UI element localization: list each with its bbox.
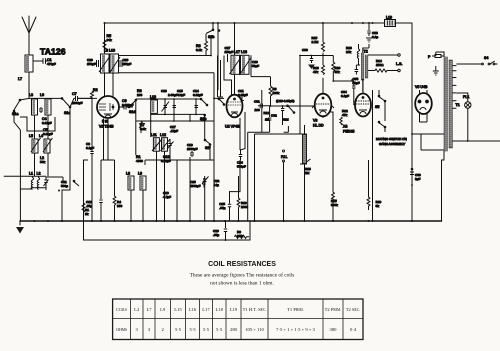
wire: X4 grid: [354, 98, 355, 105]
svg-text:S4: S4: [484, 56, 488, 60]
svg-text:0.1µF: 0.1µF: [86, 146, 94, 150]
svg-text:S5: S5: [375, 105, 379, 109]
coil L12: [162, 138, 168, 152]
svg-text:U2 VP4B: U2 VP4B: [225, 125, 240, 129]
capacitor C1: [33, 59, 48, 64]
ground: mains earth: [433, 71, 439, 75]
switch S2c: [219, 99, 224, 104]
wire: lower bus left riser: [83, 160, 85, 240]
wire: IFT2 to diode load: [251, 55, 271, 86]
svg-text:14pF: 14pF: [178, 93, 185, 97]
wire: AVC rail: [248, 132, 270, 221]
svg-text:V1 TH4B: V1 TH4B: [99, 125, 114, 129]
svg-text:150Ω: 150Ω: [376, 63, 384, 67]
svg-text:2: 2: [162, 327, 165, 332]
junction dots trimmer rails: [150, 98, 197, 122]
wire: aerial coil top rail: [20, 98, 62, 100]
IF transformer L8: [101, 54, 110, 73]
wire: V3 left drop: [255, 134, 301, 221]
svg-text:1M: 1M: [305, 171, 310, 175]
switch S2a: [73, 180, 75, 182]
wire: T2 bottom drop: [362, 80, 364, 92]
wire: antenna down-lead: [28, 72, 30, 98]
svg-text:280: 280: [230, 327, 238, 332]
junction dots on signal lines: [91, 55, 469, 186]
IF transformer L10: [110, 54, 119, 73]
wire: grid feed into V1: [78, 98, 93, 100]
ground: C30 return: [308, 65, 315, 70]
wire: bottom chassis bus: [20, 220, 442, 222]
svg-text:S1c: S1c: [64, 111, 70, 115]
svg-text:L17: L17: [202, 307, 210, 312]
valve V1 (TH4B): [97, 96, 119, 118]
svg-text:1000: 1000: [241, 205, 248, 209]
svg-text:L11: L11: [151, 133, 157, 137]
coil L13: [151, 100, 158, 113]
svg-text:500µ: 500µ: [61, 184, 68, 188]
wire: R3 junction on det line: [206, 36, 211, 56]
svg-text:P: P: [428, 55, 431, 59]
signal line V1 to mixer section: [129, 99, 201, 107]
wire: aerial section verticals: [4, 115, 48, 221]
svg-text:3.3k: 3.3k: [196, 48, 202, 52]
switch S2b: [206, 23, 213, 34]
svg-text:TA126: TA126: [40, 47, 66, 57]
valve X4 (PEN45): [355, 94, 371, 117]
svg-text:47k: 47k: [313, 70, 318, 74]
svg-text:L16: L16: [189, 307, 197, 312]
wire: HT drop at x218: [217, 23, 219, 90]
svg-text:L19: L19: [230, 307, 238, 312]
svg-text:4800: 4800: [136, 159, 143, 163]
capacitor C7: [70, 96, 97, 107]
svg-text:T1 H.T. SEC.: T1 H.T. SEC.: [243, 307, 267, 312]
svg-text:5·5: 5·5: [216, 327, 223, 332]
coil L8 low: [128, 176, 134, 190]
svg-text:L18: L18: [215, 307, 223, 312]
svg-text:5·5: 5·5: [203, 327, 210, 332]
wire: trimmer bottom rail: [151, 114, 205, 121]
wire: R18 feed: [356, 44, 360, 65]
svg-text:L2: L2: [134, 307, 140, 312]
svg-text:100k: 100k: [273, 91, 280, 95]
svg-text:150pF: 150pF: [87, 62, 96, 66]
svg-text:L4: L4: [39, 134, 43, 138]
coil L4: [44, 139, 50, 153]
svg-text:0.1µ: 0.1µ: [372, 35, 378, 39]
volume pot R13: [299, 55, 301, 134]
wire: pot top feed: [304, 125, 306, 134]
svg-text:L15: L15: [174, 307, 182, 312]
svg-text:OHMS: OHMS: [116, 327, 127, 332]
wire: S5 drop: [373, 90, 386, 221]
wire: T1 taps: [436, 52, 457, 108]
svg-text:V3: V3: [313, 119, 317, 123]
svg-text:7·5 + 1 + 1·5 + 9 + 3: 7·5 + 1 + 1·5 + 9 + 3: [276, 327, 315, 332]
wire: U2 pin drops: [240, 112, 245, 176]
valve V3 (HL DD): [315, 94, 332, 117]
svg-text:COILS: COILS: [116, 307, 127, 312]
svg-text:GANG ASSEMBLY: GANG ASSEMBLY: [379, 142, 405, 146]
coil L9 low: [140, 176, 146, 190]
wire: IFT1 bottoms to V1 anode: [105, 73, 114, 97]
svg-text:L3: L3: [29, 93, 33, 97]
coil L5: [32, 139, 38, 153]
svg-text:not shown is less than 1 ohm.: not shown is less than 1 ohm.: [210, 281, 274, 287]
wire: lower bus right riser: [249, 221, 251, 240]
wire: S1c drop: [62, 112, 70, 221]
svg-text:380: 380: [330, 327, 338, 332]
switch S1e: [201, 99, 207, 140]
ground: main chassis ground left: [19, 221, 21, 225]
IF transformer L18: [241, 55, 250, 74]
wire: PL1 top: [456, 93, 467, 102]
svg-text:C7: C7: [72, 92, 77, 96]
switch S1c: [62, 98, 70, 112]
svg-text:1k: 1k: [85, 212, 89, 216]
svg-text:These are average figures The: These are average figures The resistance…: [190, 272, 295, 279]
wire: PL1 drop to mains line: [452, 108, 500, 141]
wire: V1 cathode drop: [101, 118, 115, 190]
wire: HT dropper to IFT1: [104, 23, 106, 54]
svg-text:.05µ: .05µ: [219, 206, 225, 210]
svg-text:L9: L9: [160, 307, 166, 312]
wire: U2 top cap leads: [224, 23, 235, 95]
coil L7: [25, 55, 33, 72]
junction dots on HT bus: [104, 22, 374, 24]
svg-text:200: 200: [137, 93, 142, 97]
ground: C38 return: [366, 38, 372, 42]
transformer T1 secondary winding: [449, 60, 452, 148]
svg-text:COIL RESISTANCES: COIL RESISTANCES: [208, 261, 276, 268]
wire: V3 anode riser: [322, 23, 324, 94]
svg-text:L5: L5: [29, 134, 33, 138]
wire: T2 sec to LS: [368, 55, 398, 71]
svg-text:.05µ: .05µ: [213, 233, 219, 237]
svg-text:8µF: 8µF: [415, 177, 421, 181]
svg-text:L19: L19: [386, 16, 392, 20]
coil L3: [32, 99, 38, 115]
svg-text:L17 L18: L17 L18: [234, 50, 247, 54]
svg-text:0.1µF: 0.1µF: [341, 94, 349, 98]
wire: diode line to V3: [271, 103, 316, 106]
IF transformer L17: [231, 55, 240, 74]
wire: lower AVC bus: [84, 239, 251, 241]
svg-text:5 f6: 5 f6: [102, 120, 108, 124]
wire: top HT bus: [105, 22, 413, 24]
svg-text:0.02µF: 0.02µF: [193, 93, 203, 97]
svg-text:470pF: 470pF: [47, 62, 56, 66]
switch S1d: [129, 99, 136, 112]
valve U2 (VP4B): [227, 95, 243, 118]
switch S5 muting: [378, 95, 380, 97]
wire: R2 drop to AVC: [91, 100, 93, 107]
svg-text:47k: 47k: [342, 113, 347, 117]
coil L6: [45, 99, 51, 115]
svg-text:HL DD: HL DD: [313, 124, 324, 128]
svg-text:L8 L10: L8 L10: [104, 49, 115, 53]
svg-text:S1d: S1d: [129, 110, 135, 114]
svg-text:V5 U4B: V5 U4B: [415, 85, 428, 89]
wire: R20 to C34: [333, 80, 354, 82]
svg-text:100: 100: [255, 108, 260, 112]
wire: C21 rail: [46, 177, 63, 181]
svg-text:L1: L1: [29, 172, 33, 176]
wire: misc drops: [84, 100, 93, 221]
wire: S1a drop: [14, 113, 20, 166]
wire: osc drops to chassis: [131, 98, 214, 221]
svg-text:S1a: S1a: [12, 112, 18, 116]
svg-text:3: 3: [148, 327, 151, 332]
svg-text:L13: L13: [150, 95, 156, 99]
transformer T2 secondary: [365, 55, 368, 78]
svg-text:MUTING SWITCH ON: MUTING SWITCH ON: [376, 137, 407, 141]
svg-text:S1f: S1f: [205, 146, 210, 150]
wire: V3 cathode drop: [323, 112, 333, 150]
svg-text:L2: L2: [37, 172, 41, 176]
svg-text:3k: 3k: [376, 204, 380, 208]
svg-text:20k: 20k: [346, 50, 351, 54]
svg-text:S2d: S2d: [283, 118, 289, 122]
svg-text:L8: L8: [126, 172, 130, 176]
switch S5 second wafer: [378, 121, 380, 123]
wire: osc lower frame: [145, 150, 214, 170]
svg-text:T1: T1: [456, 103, 460, 107]
svg-text:50k: 50k: [40, 160, 45, 164]
svg-text:L7: L7: [18, 77, 22, 81]
antenna: [22, 16, 36, 55]
svg-text:64k: 64k: [107, 38, 112, 42]
wire: pot drop: [304, 164, 306, 221]
svg-text:3: 3: [136, 327, 139, 332]
svg-text:1800pF: 1800pF: [187, 147, 198, 151]
wire: PU drop: [283, 162, 285, 221]
svg-text:P.U.: P.U.: [281, 155, 288, 159]
wire: AF rail to pot: [300, 56, 333, 135]
svg-text:L6: L6: [40, 93, 44, 97]
svg-text:50µF: 50µF: [353, 81, 360, 85]
svg-text:390k: 390k: [331, 203, 338, 207]
wire: HT right bend: [411, 23, 413, 221]
svg-text:14µ: 14µ: [214, 183, 219, 187]
coil L2: [37, 178, 39, 190]
switch S1a: [14, 100, 20, 118]
svg-text:L9: L9: [138, 172, 142, 176]
svg-text:C31: C31: [254, 100, 260, 104]
svg-text:5·5: 5·5: [189, 327, 196, 332]
wire: X4 anode to T2: [362, 80, 364, 94]
svg-text:T2 PRIM.: T2 PRIM.: [325, 307, 342, 312]
svg-text:T2 SEC.: T2 SEC.: [346, 307, 361, 312]
svg-text:PL1: PL1: [463, 95, 469, 99]
svg-text:L12: L12: [160, 133, 166, 137]
svg-text:150pF: 150pF: [123, 62, 132, 66]
svg-text:L7: L7: [146, 307, 152, 312]
svg-text:C32: C32: [271, 114, 277, 118]
svg-text:680: 680: [117, 204, 122, 208]
coil L11: [153, 138, 159, 152]
svg-text:0.01µF: 0.01µF: [42, 121, 52, 125]
svg-text:R12: R12: [264, 111, 270, 115]
svg-text:500pF: 500pF: [237, 165, 246, 169]
svg-text:S1e: S1e: [200, 117, 206, 121]
svg-text:150pF: 150pF: [225, 50, 234, 54]
svg-text:105 + 110: 105 + 110: [245, 327, 264, 332]
svg-text:PEN45: PEN45: [343, 130, 354, 134]
wire: IFT1 secondary to det line: [119, 56, 215, 99]
svg-text:50pF: 50pF: [252, 64, 259, 68]
capacitor C4: [39, 107, 43, 113]
wire: det line to U2 grid: [214, 56, 224, 99]
arrow on C2 trimmer: [44, 180, 49, 187]
svg-text:T1 PRIM.: T1 PRIM.: [287, 307, 304, 312]
svg-text:1-30pF: 1-30pF: [168, 93, 178, 97]
svg-text:1000pF: 1000pF: [72, 101, 83, 105]
table: coil resistance table: [113, 299, 363, 340]
wire: aerial section inner rail: [20, 117, 55, 131]
capacitor C16 (trimmer): [167, 139, 174, 150]
svg-text:C30: C30: [302, 48, 308, 52]
svg-text:1800pF: 1800pF: [190, 184, 201, 188]
svg-text:5·5: 5·5: [175, 327, 182, 332]
svg-text:X4: X4: [343, 125, 347, 129]
wire: osc section frame: [136, 111, 214, 155]
junction dots on chassis bus: [34, 220, 414, 241]
svg-text:.17µF: .17µF: [170, 129, 178, 133]
svg-text:T2: T2: [364, 50, 368, 54]
svg-text:2.7M: 2.7M: [312, 40, 319, 44]
svg-text:(C28-0.05µF): (C28-0.05µF): [276, 99, 294, 103]
wire: T2 primary top feed: [363, 44, 369, 53]
transformer T1 primary winding: [444, 57, 447, 151]
switch S1f: [205, 140, 210, 160]
svg-text:0·4: 0·4: [350, 327, 357, 332]
svg-text:L.S.: L.S.: [396, 62, 402, 66]
wire: heater loop: [412, 134, 444, 150]
svg-text:R2: R2: [93, 88, 98, 92]
coil L1: [31, 178, 33, 190]
svg-text:C13: C13: [161, 89, 167, 93]
wire: rectifier connections: [420, 90, 428, 122]
wire: T1 bottom drop: [442, 151, 445, 221]
